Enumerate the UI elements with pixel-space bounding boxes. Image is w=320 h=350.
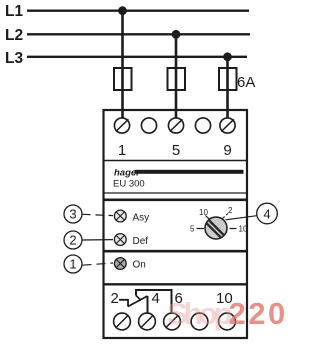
- svg-text:6A: 6A: [237, 74, 255, 91]
- svg-text:2: 2: [69, 233, 76, 248]
- lamp On: [114, 258, 126, 270]
- device outline EU300 module: [104, 110, 248, 338]
- terminal 2 screw: [114, 313, 131, 330]
- callout 4: [257, 203, 278, 224]
- fuse F3: [219, 68, 237, 90]
- watermark Shop220: [167, 296, 288, 332]
- node junction L1: [118, 6, 127, 15]
- wire L3: [27, 56, 247, 58]
- svg-text:10: 10: [199, 208, 208, 217]
- svg-text:9: 9: [223, 142, 231, 159]
- terminal 1 screw: [114, 118, 129, 133]
- lamp Def: [114, 234, 126, 246]
- fuse F2: [168, 68, 186, 90]
- svg-text:L2: L2: [5, 27, 23, 44]
- relay contact: bracket to terminal 6: [136, 290, 172, 313]
- terminal 9 screw: [220, 118, 235, 133]
- knob tick upper-left: [206, 216, 210, 220]
- divider top of bottom terminal block: [103, 283, 247, 285]
- relay contact: terminal 4 stub: [147, 296, 149, 314]
- svg-text:On: On: [133, 260, 146, 271]
- terminal screw unlabeled top 4: [195, 118, 210, 133]
- svg-text:10: 10: [239, 225, 248, 234]
- divider below top terminals: [103, 160, 247, 162]
- svg-text:5: 5: [190, 225, 195, 234]
- terminal 4 screw: [139, 313, 156, 330]
- svg-text:4: 4: [263, 207, 270, 222]
- terminal 10 screw: [219, 313, 236, 330]
- terminal screw unlabeled bottom: [191, 313, 208, 330]
- terminal screw unlabeled top 2: [141, 118, 156, 133]
- knob tick right: [230, 228, 237, 230]
- svg-text:1: 1: [69, 257, 76, 272]
- lamp Asy: [114, 210, 126, 222]
- wire L1 to terminal 1: [121, 11, 124, 119]
- svg-text:4: 4: [152, 290, 160, 307]
- wire L3 to terminal 9: [226, 57, 229, 119]
- potentiometer knob: [205, 217, 227, 239]
- hager logo bar: [135, 170, 244, 174]
- wire L2 to terminal 5: [175, 34, 178, 119]
- terminal 5 screw: [168, 118, 183, 133]
- relay contact: common 2 stub: [119, 300, 128, 307]
- svg-text:1: 1: [118, 142, 126, 159]
- knob tick left: [197, 228, 205, 230]
- svg-text:2: 2: [111, 290, 119, 307]
- callout 2: [64, 231, 82, 249]
- svg-text:Def: Def: [133, 236, 149, 247]
- knob tick dashed upper-right: [223, 214, 229, 219]
- svg-text:Asy: Asy: [133, 213, 150, 224]
- divider below label plate: [103, 192, 247, 194]
- node junction L3: [223, 52, 232, 61]
- wire L2: [27, 33, 250, 35]
- leader callout 4 to knob: [226, 216, 257, 220]
- wire L1: [27, 10, 249, 12]
- svg-text:EU 300: EU 300: [113, 179, 145, 190]
- fuse F1: [114, 68, 132, 90]
- svg-text:5: 5: [172, 142, 180, 159]
- leader callout 2 to Def lamp: [83, 239, 114, 241]
- callout 3: [64, 205, 82, 223]
- svg-text:3: 3: [69, 207, 76, 222]
- leader dashed callout 3 to Asy lamp: [83, 214, 114, 215]
- divider above On row: [103, 250, 247, 253]
- node junction L2: [172, 30, 181, 39]
- svg-text:L1: L1: [5, 3, 23, 20]
- relay contact: fixed contact tip: [136, 296, 141, 301]
- terminal 6 screw: [164, 313, 181, 330]
- divider top of LED section: [103, 199, 247, 202]
- leader dashed callout 1 to On lamp: [83, 263, 114, 265]
- svg-text:L3: L3: [5, 50, 23, 67]
- relay contact: movable arm: [128, 296, 148, 307]
- callout 1: [64, 255, 82, 273]
- svg-text:2: 2: [228, 206, 233, 215]
